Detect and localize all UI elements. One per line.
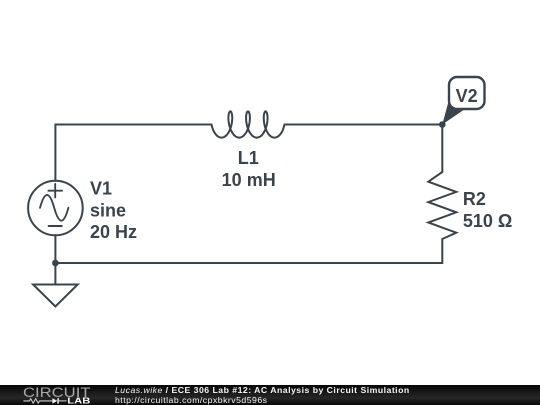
logo diode [52, 398, 57, 403]
V1 minus sign [49, 225, 62, 227]
wire V1 bottom to junction [54, 235, 56, 263]
svg-text:R2: R2 [463, 189, 486, 209]
resistor R2 zigzag [428, 172, 456, 239]
svg-text:20 Hz: 20 Hz [90, 222, 137, 242]
V1 plus sign [48, 184, 62, 197]
wire R2 bottom down and along bottom rail to junction [55, 239, 442, 263]
V1 sine symbol [40, 195, 68, 221]
svg-text:sine: sine [90, 200, 126, 220]
ground symbol [33, 285, 78, 307]
wire L1 to node V2 and down to R2 top [285, 125, 443, 173]
circuitlab logo [23, 386, 93, 405]
svg-text:V1: V1 [90, 179, 112, 199]
logo resistor squiggle [23, 398, 52, 402]
node dot V2 [439, 121, 446, 128]
svg-text:L1: L1 [238, 148, 259, 168]
wire junction to ground [54, 263, 56, 285]
V2 flag box [449, 77, 485, 109]
wire V1 top to top rail and along top rail to L1 [55, 125, 211, 181]
footer text [115, 386, 410, 405]
junction dot bottom-left [52, 260, 59, 267]
V2 flag pointer [442, 102, 465, 125]
svg-text:V2: V2 [456, 86, 478, 106]
svg-text:510 Ω: 510 Ω [463, 211, 512, 231]
voltage source V1 circle [28, 181, 83, 236]
footer bar [0, 385, 540, 405]
svg-text:LAB: LAB [67, 396, 90, 404]
svg-text:10 mH: 10 mH [222, 170, 276, 190]
inductor L1 coil [212, 111, 285, 137]
